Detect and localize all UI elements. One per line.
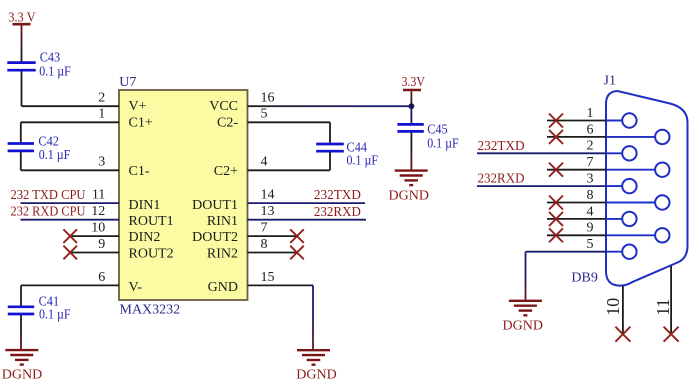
svg-text:RIN2: RIN2 [207,246,238,261]
svg-text:0.1 µF: 0.1 µF [39,65,71,80]
svg-text:13: 13 [261,204,275,219]
svg-text:1: 1 [587,106,594,121]
svg-text:6: 6 [98,270,105,285]
svg-text:11: 11 [92,188,105,203]
svg-text:10: 10 [91,221,105,236]
svg-text:0.1 µF: 0.1 µF [39,308,71,323]
svg-text:RIN1: RIN1 [207,214,238,229]
svg-text:4: 4 [261,155,268,170]
svg-text:232 TXD CPU: 232 TXD CPU [11,188,86,203]
svg-text:ROUT2: ROUT2 [129,246,174,261]
svg-text:DGND: DGND [2,368,42,383]
svg-text:ROUT1: ROUT1 [129,214,174,229]
svg-text:232RXD: 232RXD [478,172,525,187]
svg-text:11: 11 [653,298,673,315]
svg-text:10: 10 [603,298,623,316]
svg-text:8: 8 [587,188,594,203]
svg-text:2: 2 [587,139,594,154]
svg-text:VCC: VCC [209,99,238,114]
svg-text:GND: GND [208,280,238,295]
svg-text:5: 5 [587,237,594,252]
svg-text:3.3V: 3.3V [402,75,426,90]
svg-text:7: 7 [587,155,594,170]
svg-text:DGND: DGND [296,368,336,383]
svg-text:C1-: C1- [129,164,150,179]
svg-text:3: 3 [587,172,594,187]
svg-text:DIN1: DIN1 [129,198,161,213]
svg-text:DOUT1: DOUT1 [192,198,238,213]
svg-text:232 RXD CPU: 232 RXD CPU [11,205,86,220]
svg-text:9: 9 [98,237,105,252]
svg-text:DIN2: DIN2 [129,230,161,245]
svg-text:0.1 µF: 0.1 µF [39,148,71,163]
svg-text:5: 5 [261,107,268,122]
svg-text:6: 6 [587,122,594,137]
svg-text:MAX3232: MAX3232 [120,303,181,318]
svg-text:C45: C45 [427,122,448,137]
svg-text:C43: C43 [40,51,61,66]
svg-text:3: 3 [98,155,105,170]
svg-text:12: 12 [91,204,105,219]
svg-text:232TXD: 232TXD [314,188,361,203]
svg-text:DGND: DGND [503,318,543,333]
svg-text:J1: J1 [604,74,616,89]
svg-text:V+: V+ [129,99,147,114]
svg-text:16: 16 [261,91,275,106]
svg-text:C2+: C2+ [214,164,238,179]
svg-text:DGND: DGND [389,189,429,204]
svg-text:DOUT2: DOUT2 [192,230,238,245]
svg-text:14: 14 [261,188,275,203]
svg-text:C1+: C1+ [129,116,153,131]
svg-text:232RXD: 232RXD [314,205,361,220]
svg-text:1: 1 [98,107,105,122]
svg-text:V-: V- [129,280,143,295]
svg-text:C2-: C2- [217,116,238,131]
svg-text:2: 2 [98,91,105,106]
svg-text:7: 7 [261,221,268,236]
svg-text:15: 15 [261,270,275,285]
svg-text:8: 8 [261,237,268,252]
svg-text:0.1 µF: 0.1 µF [347,154,379,169]
svg-text:4: 4 [587,204,594,219]
svg-text:0.1 µF: 0.1 µF [427,136,459,151]
svg-text:9: 9 [587,221,594,236]
svg-text:U7: U7 [119,75,136,90]
svg-text:232TXD: 232TXD [478,139,525,154]
svg-text:DB9: DB9 [571,271,597,286]
